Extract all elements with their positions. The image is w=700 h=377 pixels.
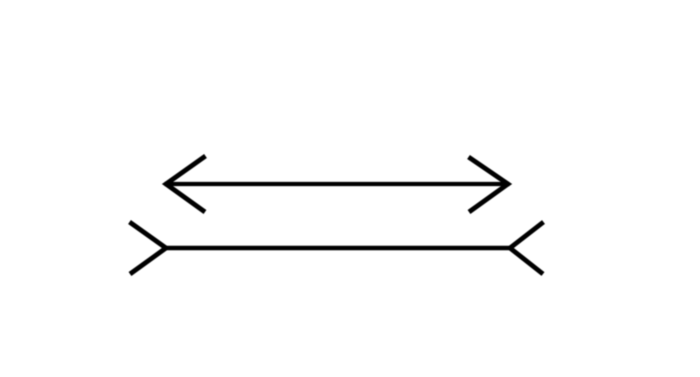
wire: top arrow shaft <box>165 182 510 186</box>
wire: bottom line shaft <box>166 246 510 250</box>
node A: top-left outward arrowhead <box>166 156 206 212</box>
node D: bottom-right inward fins <box>510 222 544 274</box>
node B: top-right outward arrowhead <box>469 157 509 212</box>
node C: bottom-left inward fins <box>130 222 167 274</box>
